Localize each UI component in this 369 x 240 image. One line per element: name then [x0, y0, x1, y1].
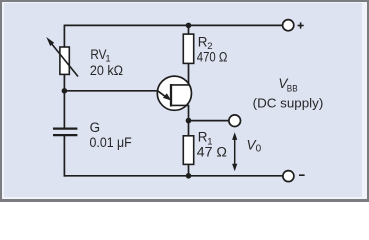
transistor Q1 (UJT): [157, 76, 191, 110]
capacitor G 0.01 uF: [53, 129, 77, 136]
svg-text:(DC supply): (DC supply): [253, 96, 324, 111]
wire bottom horizontal: [64, 175, 283, 177]
wire left rail upper: [63, 25, 65, 47]
minus sign: [299, 174, 305, 176]
svg-text:R: R: [198, 129, 208, 144]
node junction left (RV1 / C / emitter): [62, 88, 68, 94]
wire left rail lower: [63, 136, 65, 177]
wire RV1 bottom to capacitor: [63, 74, 65, 127]
svg-text:0: 0: [256, 144, 262, 155]
wire base B1 to node: [188, 105, 190, 120]
node junction B1 / R1 / output: [186, 118, 192, 124]
node junction bottom (R1 / bottom rail): [186, 173, 192, 179]
arrow V0 measurement double-headed: [232, 132, 237, 171]
svg-text:RV: RV: [90, 47, 106, 62]
svg-text:BB: BB: [287, 84, 298, 95]
svg-text:470 Ω: 470 Ω: [197, 50, 228, 65]
wire node to output circle: [189, 120, 230, 122]
resistor R1 47 Ohm: [183, 136, 193, 165]
svg-text:47 Ω: 47 Ω: [197, 145, 227, 160]
wire right rail top to R2: [188, 25, 190, 34]
wire emitter horizontal: [64, 90, 158, 92]
wire top horizontal: [64, 24, 282, 26]
wire node to R1: [188, 121, 190, 136]
wire R1 to bottom rail: [188, 164, 190, 175]
node junction top (supply / R2): [186, 23, 192, 29]
wire R2 to transistor base B2: [188, 63, 190, 85]
svg-text:20 kΩ: 20 kΩ: [90, 63, 123, 78]
resistor RV1 (variable, 20 kOhm): [46, 37, 78, 77]
svg-text:R: R: [198, 34, 208, 49]
svg-text:0.01 μF: 0.01 μF: [90, 135, 132, 150]
svg-text:G: G: [90, 120, 100, 135]
resistor R2 470 Ohm: [183, 34, 193, 63]
terminal minus circle: [283, 171, 294, 182]
terminal plus circle: [283, 20, 294, 31]
plus sign: [298, 22, 304, 28]
node output terminal circle: [229, 115, 241, 127]
